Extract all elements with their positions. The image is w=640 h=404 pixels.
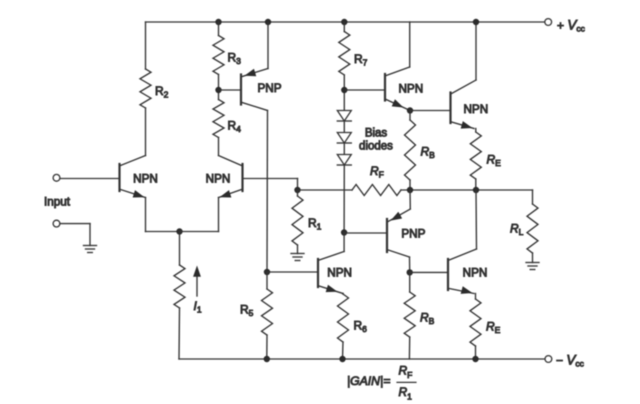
svg-text:NPN: NPN [206,173,231,186]
svg-text:PNP: PNP [401,228,425,241]
svg-text:Input: Input [44,196,71,209]
svg-text:=: = [384,374,391,388]
svg-text:NPN: NPN [463,266,488,279]
svg-text:|GAIN|: |GAIN| [347,374,383,388]
svg-text:Bias: Bias [365,128,388,140]
svg-text:NPN: NPN [398,83,423,96]
svg-text:NPN: NPN [463,103,488,116]
svg-text:PNP: PNP [257,82,281,95]
svg-text:NPN: NPN [327,267,352,280]
svg-text:diodes: diodes [359,141,393,153]
svg-text:NPN: NPN [133,173,158,186]
